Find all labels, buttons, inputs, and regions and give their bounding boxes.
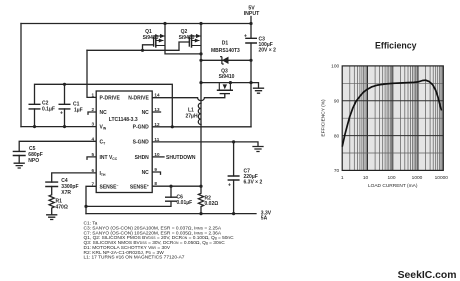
svg-text:SENSE+: SENSE+: [130, 184, 149, 191]
svg-text:470Ω: 470Ω: [56, 204, 68, 210]
svg-text:0.01µF: 0.01µF: [177, 200, 193, 206]
svg-text:3300pF: 3300pF: [61, 184, 78, 190]
svg-text:MBRS140T3: MBRS140T3: [211, 48, 240, 54]
svg-text:LOAD CURRENT (mA): LOAD CURRENT (mA): [368, 183, 418, 189]
svg-text:Si9430: Si9430: [179, 35, 195, 41]
svg-text:L1: 17 TURNS #16 ON MAGNETICS: L1: 17 TURNS #16 ON MAGNETICS 77120-A7: [84, 255, 185, 261]
svg-text:Si9430: Si9430: [143, 35, 159, 41]
svg-text:SeekIC.com: SeekIC.com: [398, 270, 457, 281]
svg-text:1: 1: [341, 175, 344, 181]
svg-text:INPUT: INPUT: [244, 11, 260, 17]
svg-text:NC: NC: [100, 110, 108, 116]
svg-text:+: +: [244, 33, 247, 39]
svg-text:X7R: X7R: [61, 190, 71, 196]
svg-text:10: 10: [154, 152, 160, 157]
svg-text:2: 2: [91, 107, 94, 112]
svg-text:N-DRIVE: N-DRIVE: [128, 95, 149, 101]
svg-text:80: 80: [334, 133, 340, 139]
svg-text:90: 90: [334, 98, 340, 104]
svg-text:4: 4: [91, 136, 94, 141]
svg-text:C4: C4: [61, 178, 68, 184]
svg-text:0.02Ω: 0.02Ω: [205, 201, 219, 207]
svg-text:3: 3: [91, 122, 94, 127]
svg-text:P-DRIVE: P-DRIVE: [100, 95, 121, 101]
svg-text:C5: C5: [29, 146, 36, 152]
svg-text:Si9410: Si9410: [219, 74, 235, 80]
svg-text:LTC1148-3.3: LTC1148-3.3: [109, 117, 138, 123]
svg-text:100: 100: [387, 175, 395, 181]
svg-text:D1: D1: [222, 41, 229, 47]
svg-text:SHDN: SHDN: [135, 155, 150, 161]
svg-text:+: +: [228, 182, 231, 188]
svg-text:13: 13: [154, 107, 160, 112]
svg-text:1000: 1000: [412, 175, 423, 181]
svg-text:7: 7: [91, 181, 94, 186]
svg-text:EFFICIENCY (%): EFFICIENCY (%): [321, 99, 327, 137]
svg-text:S-GND: S-GND: [133, 140, 150, 146]
svg-text:0.1µF: 0.1µF: [42, 106, 55, 112]
svg-text:680pF: 680pF: [28, 152, 42, 158]
svg-text:Efficiency: Efficiency: [375, 40, 417, 50]
svg-text:NC: NC: [142, 110, 150, 116]
svg-text:11: 11: [154, 137, 159, 142]
svg-text:SENSE−: SENSE−: [100, 184, 119, 191]
svg-text:10: 10: [363, 175, 369, 181]
svg-text:P-GND: P-GND: [133, 125, 150, 131]
svg-text:6: 6: [91, 168, 94, 173]
svg-text:12: 12: [154, 122, 160, 127]
svg-text:5: 5: [91, 152, 94, 157]
svg-text:SHUTDOWN: SHUTDOWN: [166, 155, 196, 161]
svg-text:+: +: [60, 110, 63, 116]
svg-text:NPO: NPO: [28, 158, 39, 164]
svg-text:9: 9: [154, 167, 157, 172]
svg-text:5A: 5A: [261, 216, 268, 222]
svg-text:10000: 10000: [435, 175, 449, 181]
svg-text:70: 70: [334, 168, 340, 174]
svg-text:100: 100: [331, 64, 339, 70]
svg-text:6.3V × 2: 6.3V × 2: [244, 179, 263, 185]
svg-text:27µH: 27µH: [186, 113, 198, 119]
svg-text:14: 14: [154, 93, 160, 98]
svg-text:8: 8: [154, 181, 157, 186]
svg-text:1µF: 1µF: [74, 107, 83, 113]
svg-text:NC: NC: [142, 170, 150, 176]
svg-text:20V × 2: 20V × 2: [259, 48, 277, 54]
svg-text:1: 1: [91, 92, 94, 97]
